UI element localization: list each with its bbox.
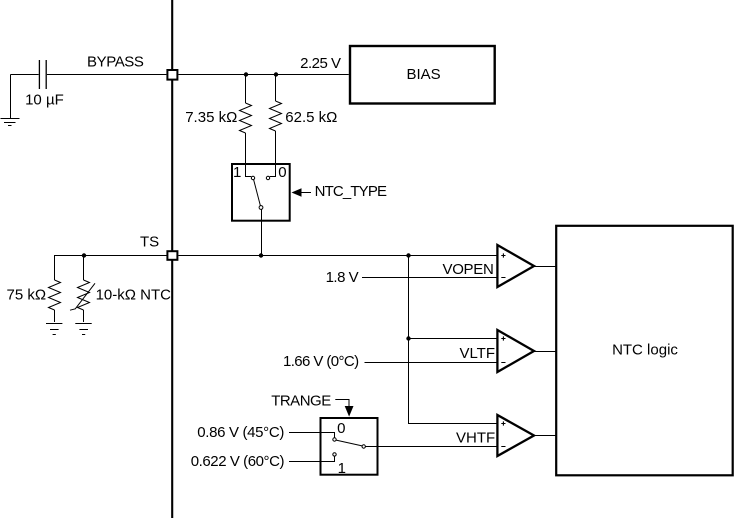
svg-text:1.66 V (0°C): 1.66 V (0°C) <box>283 353 359 370</box>
svg-text:VOPEN: VOPEN <box>442 261 493 278</box>
svg-text:2.25 V: 2.25 V <box>300 55 341 72</box>
svg-text:NTC_TYPE: NTC_TYPE <box>315 183 387 200</box>
svg-text:BYPASS: BYPASS <box>87 54 144 71</box>
svg-text:1: 1 <box>233 164 241 181</box>
svg-text:0: 0 <box>278 164 286 181</box>
svg-text:0: 0 <box>337 420 345 437</box>
svg-text:7.35 kΩ: 7.35 kΩ <box>185 109 237 126</box>
svg-text:1.8 V: 1.8 V <box>326 269 359 286</box>
svg-text:BIAS: BIAS <box>407 66 441 83</box>
svg-text:10 µF: 10 µF <box>25 92 64 109</box>
svg-text:VLTF: VLTF <box>459 345 495 362</box>
svg-text:62.5 kΩ: 62.5 kΩ <box>285 109 337 126</box>
svg-text:0.622 V (60°C): 0.622 V (60°C) <box>191 453 285 470</box>
svg-text:75 kΩ: 75 kΩ <box>7 286 47 303</box>
svg-text:1: 1 <box>338 460 346 477</box>
svg-text:VHTF: VHTF <box>456 430 495 447</box>
svg-text:TS: TS <box>140 234 159 251</box>
svg-text:0.86 V (45°C): 0.86 V (45°C) <box>197 424 284 441</box>
svg-text:TRANGE: TRANGE <box>271 392 331 409</box>
svg-text:NTC logic: NTC logic <box>612 342 678 359</box>
svg-text:10-kΩ NTC: 10-kΩ NTC <box>96 286 172 303</box>
